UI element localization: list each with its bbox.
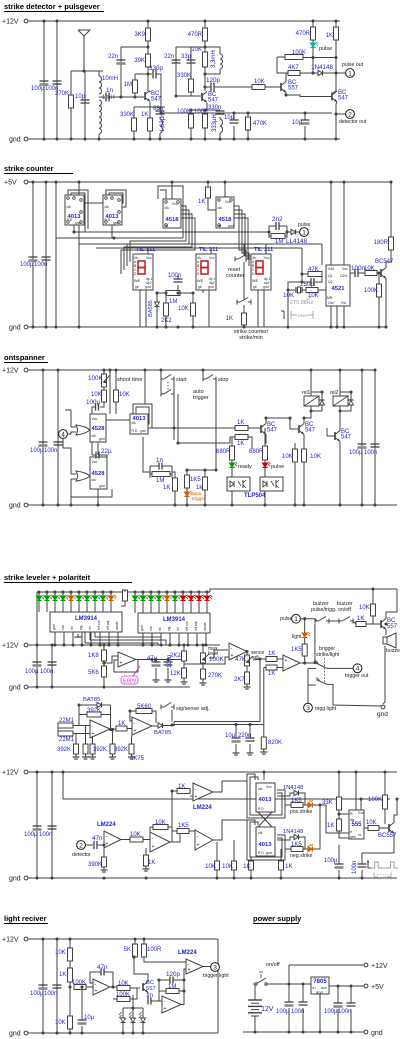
arrow annotation (368, 861, 371, 868)
wire 680R a-led (231, 460, 233, 463)
wire res281 gnd (280, 870, 282, 878)
capacitor 47n S4 (93, 841, 95, 849)
LED bar R1 (132, 596, 137, 600)
svg-text:100µ: 100µ (31, 86, 45, 92)
wire 1K C gnd (243, 325, 245, 327)
svg-text:clk: clk (165, 206, 170, 210)
wire 100n ps g (302, 1008, 304, 1032)
junction dots S3 (41, 368, 44, 371)
svg-text:4h: 4h (197, 256, 201, 260)
svg-text:gnd: gnd (140, 625, 144, 631)
capacitor 100n S5 (53, 984, 62, 986)
wire 1K-T5 collector (333, 40, 336, 93)
resistor 1M A (133, 80, 138, 93)
wire pot-270K (202, 663, 204, 669)
LED bar R8 (188, 596, 193, 600)
capacitor 100µ S1 (40, 80, 49, 82)
resistor 10K S5c (117, 986, 130, 991)
svg-text:1min: 1min (297, 313, 307, 318)
resistor 10K xtal (306, 288, 318, 293)
IC 4013 B (103, 195, 122, 225)
wire opamp2 out (246, 652, 248, 656)
svg-text:mode: mode (203, 622, 207, 631)
wire start top (160, 370, 162, 379)
IC LM3914 B (138, 613, 210, 633)
+12V terminal S4a (24, 643, 28, 647)
svg-text:4h: 4h (252, 256, 256, 260)
resistor 10K S5b (68, 1016, 73, 1029)
op-amp U6c (193, 783, 213, 801)
wire LM3914B pin 161 (160, 633, 162, 645)
+12V terminal S4b (24, 770, 28, 774)
LED pulse cyan (310, 43, 315, 47)
wire 470K (247, 113, 249, 117)
svg-text:10p: 10p (224, 115, 235, 121)
svg-text:+: + (106, 841, 109, 847)
svg-text:Q1: Q1 (328, 274, 333, 278)
svg-text:+12V: +12V (371, 963, 388, 970)
wire 1K S2 top (207, 182, 209, 187)
IC 4521 (326, 265, 350, 306)
svg-text:ref adj: ref adj (194, 621, 198, 631)
svg-text:47n: 47n (97, 964, 108, 971)
IC 4013 S3 (130, 414, 148, 434)
gnd rail S2 (28, 326, 386, 328)
svg-text:+12V: +12V (2, 937, 19, 944)
svg-text:820K: 820K (268, 740, 282, 746)
svg-text:10K: 10K (205, 863, 217, 870)
wire LED L3 down (54, 601, 56, 612)
svg-text:MR: MR (327, 296, 333, 300)
wire pd bus (123, 1007, 143, 1009)
capacitor 22n A (117, 59, 126, 61)
wire 10K-100u (100, 402, 104, 407)
svg-text:1n: 1n (156, 457, 164, 464)
wire 100K bias gnd (378, 297, 380, 327)
svg-text:vcc: vcc (61, 625, 65, 630)
gnd rail S4a (28, 686, 190, 688)
wire xtal-4521 (318, 289, 326, 291)
wire Tb base (290, 418, 299, 429)
wire fb loop (79, 704, 97, 706)
wire LM3914A pin 64 (63, 632, 65, 645)
wire opamp1 out (136, 659, 152, 661)
svg-text:gnd: gnd (9, 1031, 21, 1038)
wire 1K A gnd (149, 131, 151, 139)
wire Tb emitter (303, 435, 305, 450)
wire rel1 diode bot (311, 406, 322, 411)
svg-text:100n: 100n (338, 1009, 351, 1015)
wire sw3 right (327, 667, 353, 669)
wire TIL1 vcc (147, 248, 149, 254)
crossover 4013 (258, 812, 272, 827)
svg-text:1N4148: 1N4148 (283, 829, 303, 835)
resistor 10K S2 (191, 303, 196, 316)
resistor 270K S4 (201, 669, 206, 679)
switch onoff (253, 983, 256, 985)
svg-text:4521: 4521 (332, 286, 346, 292)
wire fb box r (110, 705, 112, 730)
wire node313 down (312, 58, 314, 74)
wire 100R (204, 110, 206, 114)
svg-text:4: 4 (61, 431, 65, 438)
wire 10K S5 top (69, 939, 71, 948)
svg-text:100K: 100K (116, 992, 130, 998)
wire 680R b-led (264, 460, 266, 463)
resistor 10K x234 (232, 861, 237, 870)
wire LED R2 (142, 592, 144, 596)
wire U5b out (152, 725, 158, 727)
svg-text:547: 547 (267, 428, 278, 434)
wire 4528A bot (97, 442, 99, 455)
wire 100u ps2 g (337, 1009, 339, 1032)
svg-text:Vdd: Vdd (328, 267, 334, 271)
svg-text:level: level (208, 651, 218, 657)
wire 1KA left (260, 658, 266, 660)
svg-text:22M1: 22M1 (59, 737, 75, 743)
resistor 330K B (189, 79, 194, 92)
wire 10K S5c r (130, 987, 140, 989)
resistor 100K A (189, 114, 194, 128)
svg-text:+: + (95, 988, 98, 994)
bus wire y238 (56, 237, 183, 239)
wire 4013A down (74, 225, 86, 232)
svg-text:1M: 1M (124, 82, 132, 88)
wire LM3914A pin 118 (117, 632, 119, 645)
resistor 1K C (242, 313, 247, 325)
svg-text:+: + (285, 658, 288, 664)
wire bundle C (160, 190, 166, 203)
svg-text:WE: WE (197, 279, 204, 283)
capacitor 100n S4c (48, 825, 57, 827)
+12V rail S3 (28, 369, 376, 371)
junction dots S1 (42, 19, 45, 22)
capacitor 100n S4b (164, 661, 173, 663)
svg-text:100n: 100n (364, 450, 377, 456)
gnd rail PS (243, 1031, 364, 1033)
wire 22u left (91, 442, 93, 455)
wire LED R10 (206, 592, 208, 596)
wire U5a-1K-U5b (127, 728, 132, 730)
LED auto trigger orange (184, 492, 189, 496)
svg-text:2n2: 2n2 (272, 216, 283, 223)
wire 4K75 top (131, 735, 134, 744)
wire 33K-1K (338, 810, 340, 819)
svg-text:+: + (164, 1006, 167, 1012)
svg-text:Vcc: Vcc (146, 256, 152, 260)
resistor 22M1 B (58, 731, 73, 736)
wire Ta collector (266, 418, 290, 424)
LED bar L2 (44, 596, 49, 600)
svg-text:270,8kHz: 270,8kHz (290, 300, 313, 306)
switch strike counter (236, 300, 238, 305)
wire LM3914B pin 143 (142, 633, 144, 645)
wire BC emitter gnd (385, 279, 387, 328)
wire buzzer T emitter up (386, 589, 397, 619)
wire 10µ A gnd (304, 126, 306, 139)
wire 7805 out (329, 985, 364, 987)
+5V out terminal (364, 984, 368, 988)
wire v79 (78, 182, 80, 327)
diode BAT85 A (97, 702, 102, 707)
wire LM3914B pin 197 (196, 633, 198, 645)
svg-text:392K: 392K (114, 747, 128, 753)
LED ready green (229, 463, 234, 467)
wire T3 emitter up (285, 73, 287, 82)
wire 100u S3r (361, 370, 363, 505)
wire 5K top (134, 939, 136, 944)
wire pd3 bot (142, 1027, 144, 1033)
wire sw-node (269, 983, 311, 985)
wire 10K r bot (372, 616, 374, 624)
photodiode 2 (132, 1014, 134, 1018)
gnd terminal S3 (24, 503, 28, 507)
capacitor 100n B (174, 278, 183, 280)
capacitor 100n S2 (42, 256, 51, 258)
bus wire y244 drop (321, 244, 323, 265)
wire LED R8 down (190, 601, 192, 613)
svg-text:1K: 1K (327, 823, 334, 829)
display TIL311 1 (133, 254, 153, 290)
svg-text:gnd: gnd (228, 224, 234, 228)
svg-text:47K: 47K (308, 267, 319, 273)
resistor 1K5 trigg (302, 644, 307, 656)
wire 100u 555 g (338, 870, 340, 878)
svg-text:detector: detector (72, 852, 91, 858)
resistor 1K S4A (266, 657, 277, 662)
wire T3-T5 base (286, 95, 332, 97)
svg-text:392K: 392K (87, 708, 101, 714)
svg-text:+5V: +5V (4, 180, 17, 187)
wire sw drop x315 (314, 624, 316, 663)
wire 1k top (204, 470, 206, 477)
LED bar L1 (36, 596, 41, 600)
terminal 4 trigger out (353, 664, 362, 673)
capacitor 100µ S3 (39, 441, 48, 443)
IC 4518 A (163, 199, 181, 228)
wire fb net3 (159, 980, 162, 1001)
+12V rail S5 (28, 938, 218, 940)
svg-text:10K: 10K (191, 47, 202, 53)
svg-text:Vst: Vst (341, 301, 346, 305)
svg-text:547: 547 (338, 96, 349, 102)
IC 4013 A (65, 195, 84, 225)
bus wire y248 drop (301, 248, 303, 274)
capacitor 1n S5 (147, 998, 149, 1005)
svg-text:22M1: 22M1 (59, 718, 75, 724)
svg-text:LM224: LM224 (193, 805, 212, 811)
svg-text:1K: 1K (118, 721, 125, 727)
resistor 10K 555 (368, 826, 379, 831)
wire U6c in2 (190, 795, 193, 797)
wire 100K bias (378, 273, 380, 284)
wire gateA-4528 (89, 429, 91, 431)
svg-text:1K: 1K (141, 112, 148, 118)
wire U6d in (189, 830, 195, 832)
wire 1M bottom (134, 93, 136, 97)
wire 1K5 neg l (285, 848, 291, 850)
svg-text:1K5: 1K5 (291, 798, 302, 804)
svg-text:strike leveler + polariteit: strike leveler + polariteit (4, 573, 91, 582)
resistor 1K8 (102, 650, 107, 661)
potentiometer 47K sense (245, 655, 250, 666)
svg-text:gnd: gnd (316, 990, 323, 995)
wire 4528B gnd (97, 489, 99, 505)
svg-text:pulse: pulse (319, 46, 332, 52)
svg-text:Vcc: Vcc (92, 417, 98, 421)
svg-text:LM224: LM224 (178, 950, 197, 956)
wire U7a out (110, 986, 117, 988)
wire LED L1 (38, 592, 40, 596)
svg-text:333µH: 333µH (212, 114, 218, 132)
LED bar R5 (164, 596, 169, 600)
wire gateA in2 (71, 426, 76, 428)
wire LED R5 down (166, 601, 168, 613)
svg-text:clk: clk (92, 478, 96, 482)
svg-text:pulse: pulse (280, 616, 293, 622)
svg-text:100µ: 100µ (276, 1009, 290, 1015)
svg-text:100n: 100n (168, 273, 181, 279)
ground 100n (167, 677, 169, 680)
+12V terminal S5 (24, 937, 28, 941)
switch stop (202, 377, 204, 382)
wire diode-term (296, 231, 300, 233)
wire Tb collector (304, 407, 311, 424)
junction dots S2 (31, 180, 34, 183)
RC top wires2 (279, 225, 287, 227)
wire sw reset up (243, 244, 245, 256)
svg-text:gnd: gnd (75, 221, 81, 225)
svg-text:10K: 10K (55, 1020, 66, 1026)
transistor BC547 S2 (380, 269, 382, 277)
wire term2 (336, 113, 346, 115)
svg-text:47n: 47n (92, 835, 103, 842)
wire TIL1 gnd2 (145, 290, 147, 327)
wire 47n loop2 (104, 972, 113, 987)
capacitor 100n C (354, 269, 356, 277)
ground ref LM3914 (77, 634, 79, 637)
wire bundle B (106, 190, 126, 207)
resistor 470R A (203, 28, 208, 41)
+5V terminal S2 (24, 180, 28, 184)
svg-text:1M: 1M (169, 299, 177, 305)
wire sig sw drop (171, 710, 173, 722)
gnd right S4 (381, 705, 385, 709)
svg-text:+: + (195, 794, 198, 800)
svg-text:gnd: gnd (266, 851, 272, 855)
TIL311 1 seven segment (138, 261, 145, 268)
wire 100n S3r (374, 370, 376, 505)
wire 68n (159, 107, 161, 110)
wire 1K5 pos r (303, 804, 308, 806)
svg-text:rel1: rel1 (302, 390, 311, 396)
svg-text:Vcc: Vcc (266, 785, 272, 789)
svg-text:ref adj: ref adj (106, 620, 110, 630)
wire fb res r (101, 714, 111, 716)
display TIL311 2 (196, 254, 216, 290)
wire 100n S5 (56, 939, 58, 1033)
transistor BC557 S5 (142, 983, 144, 991)
svg-text:1M: 1M (156, 478, 164, 484)
svg-text:Vcc: Vcc (225, 200, 231, 204)
transistor T5 BC547 (331, 93, 333, 101)
wire sw-sw (329, 620, 339, 622)
svg-text:buzzer: buzzer (386, 648, 400, 654)
svg-text:sig: sig (79, 626, 83, 630)
IC 555 (349, 810, 364, 839)
wire 1K-node (69, 982, 71, 987)
wire long y113b (234, 112, 332, 114)
svg-text:1: 1 (302, 229, 306, 236)
ground 220n (249, 750, 251, 753)
RC parallel frame2 (286, 226, 288, 238)
capacitor 100n PS (299, 1001, 308, 1003)
wire 100n d (167, 660, 169, 663)
RC top wires (269, 225, 276, 227)
wire Ta emitter (265, 435, 266, 444)
svg-text:rst: rst (165, 224, 169, 228)
terminal 2 detector in (77, 841, 86, 850)
wire 4013A-B link (84, 202, 103, 204)
svg-text:4013: 4013 (259, 842, 273, 848)
wire LED R7 (182, 592, 184, 596)
switch sig/sense adj (160, 705, 162, 710)
wire fb wires (150, 827, 153, 836)
diode rel1 (321, 396, 323, 400)
capacitor 10p B (230, 119, 239, 121)
wire Tc base from (326, 428, 328, 436)
wire rel1 diode loop (311, 392, 322, 396)
svg-text:10µ: 10µ (84, 1015, 95, 1021)
terminal 2 detector out (346, 110, 355, 119)
svg-text:12K: 12K (170, 671, 181, 677)
resistor 1K S3d (235, 426, 248, 431)
capacitor 100n S3r (371, 443, 380, 445)
LED bar L10 (108, 596, 113, 600)
wire 470R B top (312, 21, 314, 27)
wire 100n ps2 (350, 986, 352, 1003)
wire coil tap (99, 96, 105, 98)
svg-text:547: 547 (341, 435, 352, 441)
resistor 10K x217 (215, 861, 220, 870)
ground 270K (202, 680, 204, 683)
wire fb res l (79, 714, 87, 716)
pins 4518 A (165, 201, 168, 204)
resistor 680R B (263, 446, 268, 460)
wire 10p B (233, 113, 235, 120)
wire 10p B gnd (233, 126, 235, 139)
wire 1M B right (180, 292, 193, 294)
relay rel2 (333, 396, 348, 406)
ground 390K (103, 867, 105, 870)
1n wires (150, 465, 159, 467)
wire 10u S4 g (235, 744, 237, 751)
svg-text:gnd: gnd (140, 429, 146, 433)
terminal 3 trigger light out (211, 963, 220, 972)
ground 4K75 (131, 754, 133, 757)
supply h y799 (63, 798, 390, 800)
svg-text:100K: 100K (292, 50, 306, 56)
resistor 2K2 S2 (164, 303, 169, 316)
wire fb net2 (173, 979, 184, 981)
svg-text:100n: 100n (39, 832, 52, 838)
wire 47K wiper (253, 659, 260, 660)
svg-text:5K60: 5K60 (137, 704, 152, 710)
wire LED-node (312, 48, 314, 57)
op-amp U5b (132, 717, 152, 735)
wire 10K S3c gnd (294, 462, 296, 505)
wire LED L4 down (62, 601, 64, 612)
